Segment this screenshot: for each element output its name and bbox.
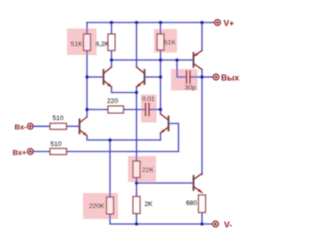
wire output to terminal (202, 76, 213, 78)
wire 510 to Q1 base (67, 125, 80, 127)
node bus-30p (175, 58, 178, 61)
svg-text:2K: 2K (145, 201, 154, 208)
terminal V+ (215, 20, 221, 26)
resistor R8 220K (107, 197, 114, 214)
svg-text:510: 510 (51, 141, 62, 148)
wire 51K-right top lead (160, 23, 162, 35)
highlight 22K (128, 156, 156, 182)
svg-text:0.01: 0.01 (142, 96, 155, 103)
wire 30p branch (177, 60, 187, 77)
resistor R4 510 upper (50, 123, 67, 129)
wire mirror emitters joint (112, 87, 137, 93)
svg-text:V+: V+ (224, 18, 235, 28)
wire 51K-left bottom to node A (86, 51, 88, 110)
svg-text:V-: V- (224, 219, 232, 229)
svg-text:22K: 22K (142, 167, 154, 174)
wire 22K bottom to Q6 base (136, 178, 138, 197)
transistor Q-mirror-right (137, 67, 145, 87)
svg-text:220: 220 (107, 98, 118, 105)
node rail-mirror (135, 21, 138, 24)
svg-text:6,2K: 6,2K (96, 41, 110, 48)
node mirrorR base (159, 75, 162, 78)
wire Q2 emitter stub (160, 133, 162, 140)
resistor R6 220 (108, 106, 124, 113)
wire 51K-left top lead (86, 23, 88, 35)
node bus-6.2K (110, 58, 113, 61)
wire Q1 emitter to tail (87, 136, 161, 140)
transistor Q6 output (194, 174, 203, 193)
wire mirror-right base (145, 76, 161, 78)
wire 2K bottom lead (136, 214, 138, 225)
wire mirror-left collector stub (111, 60, 113, 67)
terminal V- (213, 221, 219, 227)
wire 51K-right bottom chain (160, 50, 162, 110)
highlight 220K (83, 193, 118, 219)
svg-text:51K: 51K (164, 40, 176, 47)
terminal Vin+ (27, 149, 33, 155)
highlight 0.01 (141, 95, 157, 123)
resistor R7 22K (133, 161, 140, 178)
wire mirror-right emitter stub (136, 87, 138, 93)
wire Vin+ terminal to 510 (33, 151, 50, 153)
resistor R3 51K right (157, 34, 164, 50)
node rail-51K (159, 21, 162, 24)
highlight 51K right (154, 29, 177, 53)
wire top rail V+ (87, 22, 215, 24)
svg-text:510: 510 (53, 115, 64, 122)
resistor R9 2K (133, 197, 140, 214)
resistor R5 510 lower (50, 149, 67, 155)
resistor R1 51K left (84, 34, 91, 51)
svg-text:51K: 51K (71, 41, 83, 48)
terminal Vyh output (213, 74, 219, 80)
capacitor C2 30p (187, 71, 191, 83)
svg-text:Вых: Вых (221, 72, 239, 82)
transistor Q2 input right (161, 114, 169, 133)
node A-220 (85, 108, 88, 111)
svg-text:680: 680 (186, 200, 197, 207)
node rail-680 (200, 222, 203, 225)
node A-mirror base (85, 75, 88, 78)
transistor Q5 driver (194, 51, 203, 70)
wire 680 bottom lead (201, 213, 203, 225)
wire Q6 base bus (137, 182, 194, 184)
node tail-220K (108, 138, 111, 141)
node rail-2K (135, 222, 138, 225)
transistor Q-mirror-left (104, 67, 112, 87)
wire Vin- terminal to 510 (33, 125, 50, 127)
wire Q1 collector stub (86, 110, 88, 117)
node mirror emitters (135, 91, 138, 94)
transistor Q1 input left (80, 117, 88, 136)
wire 30p right to output node (190, 76, 202, 78)
resistor R2 6.2K (108, 34, 115, 51)
highlight 30p (171, 69, 198, 91)
node rail-Q5 (200, 21, 203, 24)
wire Vin+ to Q2 base (67, 124, 179, 152)
svg-text:220K: 220K (89, 203, 105, 210)
svg-text:Вх+: Вх+ (13, 148, 27, 157)
terminal Vin- (27, 123, 33, 129)
node rail-6.2K (110, 21, 113, 24)
svg-text:30p: 30p (185, 84, 196, 91)
wire 6.2K top lead (111, 23, 113, 35)
wire tail down to 22K (136, 93, 138, 162)
wire 6.2K bottom lead (111, 51, 113, 61)
svg-text:Вх-: Вх- (15, 123, 27, 132)
wire Q2 collector stub (160, 110, 162, 114)
node 22K-Q6base (135, 181, 138, 184)
wire Q5 collector to rail (201, 23, 203, 51)
wire bottom rail V- (110, 214, 212, 224)
wire mirror-right collector to rail (136, 23, 138, 68)
wire 0.01 to node B (149, 109, 161, 111)
resistor R10 680 (199, 195, 206, 213)
wire 220 to 0.01 (124, 109, 146, 111)
wire node A to 220 resistor (87, 109, 108, 111)
wire Q5 emitter down output column (201, 70, 203, 175)
node output (200, 75, 203, 78)
node B (159, 108, 162, 111)
highlight 51K left (67, 29, 97, 56)
wire 220K top lead (109, 140, 111, 197)
wire mirror-left base (87, 76, 104, 78)
capacitor C1 0.01 (146, 104, 150, 116)
node bus-51KR (159, 58, 162, 61)
wire base bus y60 (112, 59, 194, 61)
